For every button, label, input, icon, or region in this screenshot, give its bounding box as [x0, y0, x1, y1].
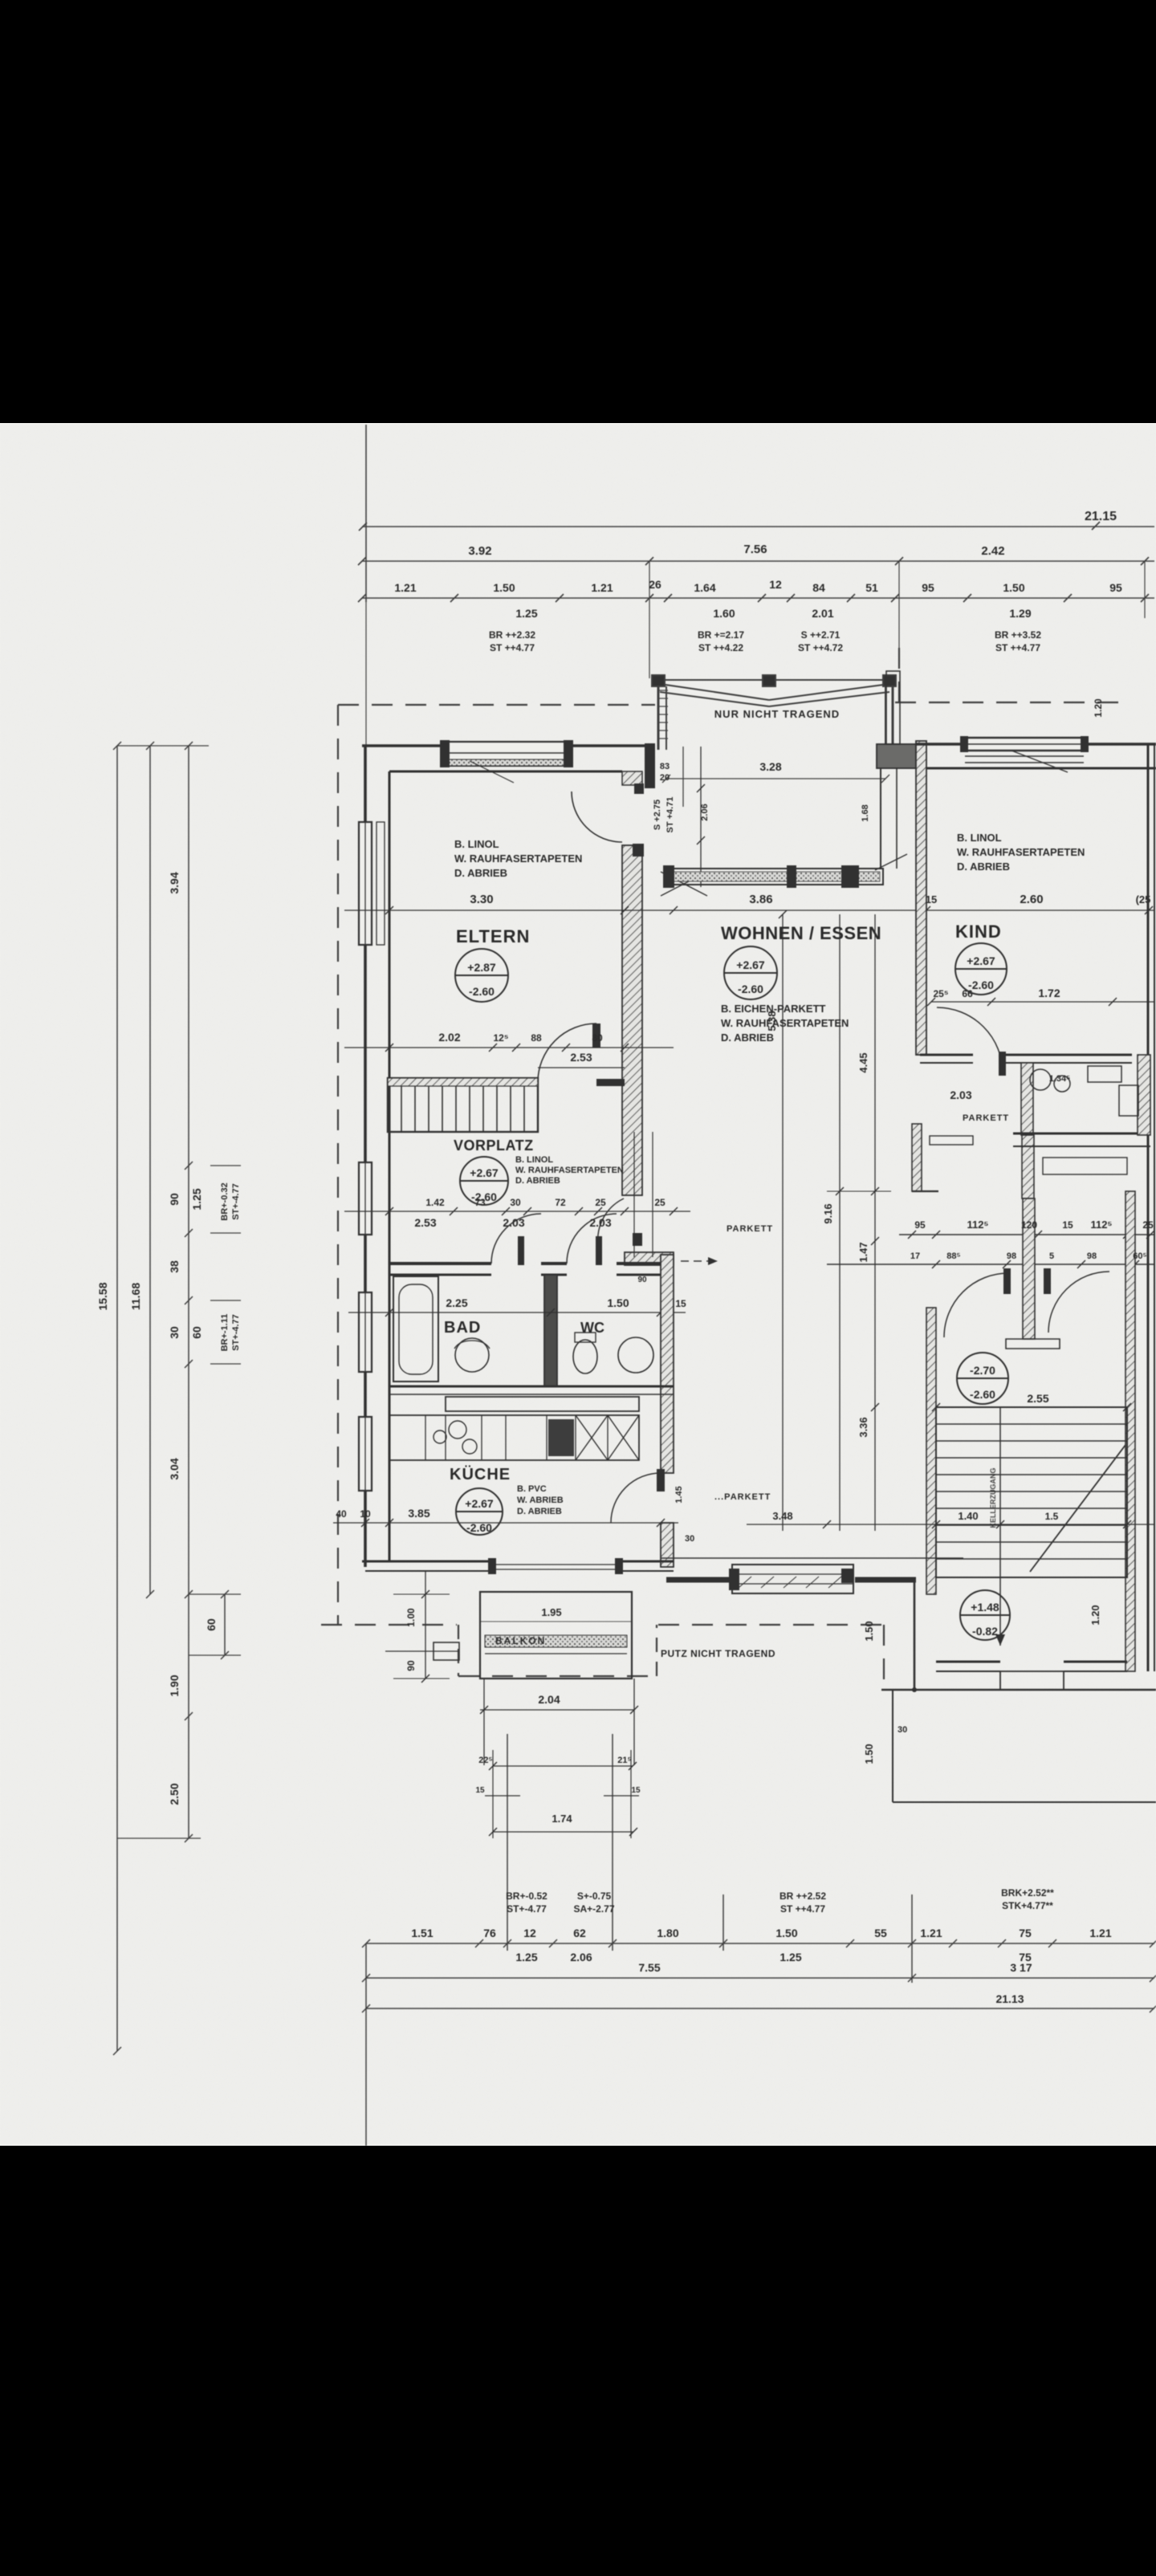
svg-text:2.53: 2.53 — [570, 1051, 592, 1064]
svg-text:BRK+2.52**: BRK+2.52** — [1001, 1887, 1054, 1898]
svg-text:+2.87: +2.87 — [467, 961, 496, 974]
svg-text:2.02: 2.02 — [438, 1031, 460, 1044]
svg-text:D. ABRIEB: D. ABRIEB — [515, 1176, 560, 1186]
svg-text:76: 76 — [483, 1927, 496, 1939]
svg-text:1.50: 1.50 — [1003, 581, 1024, 594]
svg-text:88: 88 — [531, 1032, 542, 1044]
svg-text:9.16: 9.16 — [822, 1203, 834, 1223]
svg-text:1.5: 1.5 — [1045, 1511, 1059, 1522]
svg-text:ST+-4.77: ST+-4.77 — [231, 1183, 241, 1220]
svg-text:11.68: 11.68 — [129, 1283, 142, 1310]
svg-text:88⁵: 88⁵ — [946, 1251, 960, 1261]
svg-text:D. ABRIEB: D. ABRIEB — [957, 861, 1010, 873]
svg-text:-2.60: -2.60 — [970, 1388, 995, 1401]
svg-text:-2.60: -2.60 — [469, 985, 495, 998]
svg-text:PARKETT: PARKETT — [727, 1224, 773, 1234]
svg-text:15: 15 — [926, 893, 937, 905]
svg-text:95: 95 — [914, 1219, 926, 1231]
svg-text:55: 55 — [874, 1927, 887, 1939]
svg-text:12: 12 — [769, 578, 782, 591]
svg-text:40: 40 — [336, 1508, 347, 1520]
svg-text:+2.67: +2.67 — [470, 1166, 499, 1179]
svg-text:95: 95 — [1109, 581, 1122, 594]
svg-text:WOHNEN / ESSEN: WOHNEN / ESSEN — [721, 923, 881, 943]
svg-text:1.68: 1.68 — [861, 804, 870, 821]
svg-text:B. LINOL: B. LINOL — [515, 1155, 553, 1165]
svg-text:1.40: 1.40 — [958, 1510, 978, 1522]
svg-text:ST+-4.77: ST+-4.77 — [507, 1903, 547, 1915]
svg-text:S +2.75: S +2.75 — [653, 800, 662, 830]
svg-text:STK+4.77**: STK+4.77** — [1002, 1900, 1053, 1911]
svg-text:22⁵: 22⁵ — [478, 1756, 492, 1765]
svg-text:NUR NICHT TRAGEND: NUR NICHT TRAGEND — [714, 708, 840, 720]
svg-text:17: 17 — [910, 1251, 920, 1261]
svg-text:84: 84 — [812, 581, 825, 594]
svg-text:5: 5 — [1049, 1251, 1054, 1261]
svg-text:75: 75 — [1019, 1927, 1032, 1939]
svg-text:1.20: 1.20 — [1093, 698, 1104, 718]
svg-text:WC: WC — [580, 1320, 604, 1336]
svg-text:S ++2.71: S ++2.71 — [801, 629, 841, 641]
svg-text:1.45: 1.45 — [674, 1486, 684, 1503]
svg-text:1.25: 1.25 — [779, 1951, 801, 1964]
svg-text:D. ABRIEB: D. ABRIEB — [517, 1507, 562, 1516]
svg-text:1.50: 1.50 — [775, 1927, 797, 1939]
svg-text:1.50: 1.50 — [607, 1296, 629, 1309]
svg-text:-2.60: -2.60 — [471, 1190, 497, 1203]
svg-text:1.21: 1.21 — [394, 581, 416, 594]
svg-text:3.30: 3.30 — [470, 893, 493, 906]
svg-text:21.13: 21.13 — [995, 1992, 1024, 2005]
svg-text:BR+-0.32: BR+-0.32 — [220, 1182, 230, 1220]
svg-text:12: 12 — [523, 1927, 536, 1939]
svg-text:S+-0.75: S+-0.75 — [577, 1890, 612, 1902]
svg-text:30: 30 — [510, 1197, 521, 1208]
svg-text:+2.67: +2.67 — [736, 958, 765, 971]
svg-text:15: 15 — [631, 1786, 641, 1795]
svg-text:1.50: 1.50 — [863, 1621, 875, 1641]
svg-text:BR +=2.17: BR +=2.17 — [698, 629, 744, 641]
svg-text:ST ++4.77: ST ++4.77 — [490, 642, 535, 653]
svg-text:98: 98 — [1087, 1251, 1097, 1261]
svg-text:1.25: 1.25 — [515, 1951, 537, 1964]
svg-text:1.80: 1.80 — [657, 1927, 678, 1939]
svg-text:90: 90 — [405, 1660, 417, 1671]
svg-text:1.64: 1.64 — [694, 581, 715, 594]
svg-text:-0.82: -0.82 — [972, 1625, 998, 1638]
svg-text:-2.70: -2.70 — [970, 1364, 995, 1377]
svg-text:7.56: 7.56 — [743, 543, 767, 556]
svg-text:1.72: 1.72 — [1038, 987, 1060, 999]
svg-text:21⁵: 21⁵ — [617, 1756, 631, 1765]
svg-text:1.90: 1.90 — [168, 1675, 181, 1696]
svg-text:38: 38 — [168, 1260, 181, 1273]
svg-text:BR ++2.52: BR ++2.52 — [779, 1890, 826, 1902]
svg-text:3.48: 3.48 — [772, 1510, 792, 1522]
svg-text:B. LINOL: B. LINOL — [454, 838, 499, 850]
svg-text:1.50: 1.50 — [863, 1744, 875, 1764]
svg-text:3.94: 3.94 — [168, 872, 181, 893]
svg-text:3.36: 3.36 — [857, 1417, 869, 1437]
svg-text:15: 15 — [1062, 1219, 1073, 1231]
svg-text:-2.60: -2.60 — [738, 983, 763, 995]
svg-text:98: 98 — [1007, 1251, 1016, 1261]
svg-text:KELLERZUGANG: KELLERZUGANG — [989, 1468, 997, 1528]
svg-text:1.20: 1.20 — [1089, 1605, 1101, 1625]
svg-text:2.03: 2.03 — [950, 1089, 971, 1101]
svg-text:2.01: 2.01 — [812, 607, 833, 620]
svg-text:ST+-4.77: ST+-4.77 — [231, 1314, 241, 1351]
svg-text:W. ABRIEB: W. ABRIEB — [517, 1496, 564, 1505]
svg-text:2.25: 2.25 — [446, 1296, 467, 1309]
svg-text:...PARKETT: ...PARKETT — [714, 1492, 771, 1502]
svg-text:60⁵: 60⁵ — [1133, 1251, 1146, 1261]
svg-text:5.38: 5.38 — [766, 1011, 778, 1031]
svg-text:1.60: 1.60 — [713, 607, 735, 620]
svg-text:ST +4.71: ST +4.71 — [666, 797, 675, 833]
svg-text:4.45: 4.45 — [857, 1052, 869, 1072]
svg-text:W. RAUHFASERTAPETEN: W. RAUHFASERTAPETEN — [515, 1166, 624, 1175]
svg-text:B. PVC: B. PVC — [517, 1484, 547, 1494]
svg-text:120: 120 — [1021, 1219, 1037, 1231]
svg-text:1.74: 1.74 — [552, 1813, 572, 1825]
svg-text:PUTZ NICHT TRAGEND: PUTZ NICHT TRAGEND — [661, 1648, 775, 1659]
svg-text:+1.48: +1.48 — [971, 1601, 999, 1614]
svg-text:2.03: 2.03 — [589, 1216, 611, 1229]
svg-text:BR ++2.32: BR ++2.32 — [489, 629, 535, 641]
svg-text:BR ++3.52: BR ++3.52 — [995, 629, 1041, 641]
svg-text:30: 30 — [898, 1725, 907, 1735]
svg-text:51: 51 — [865, 581, 878, 594]
svg-text:+2.67: +2.67 — [967, 954, 995, 967]
svg-text:30: 30 — [168, 1326, 181, 1339]
svg-text:2.60: 2.60 — [1020, 893, 1043, 906]
svg-text:1.47: 1.47 — [857, 1242, 869, 1262]
svg-text:BALKON: BALKON — [495, 1635, 546, 1646]
svg-text:90: 90 — [637, 1276, 647, 1284]
svg-text:SA+-2.77: SA+-2.77 — [573, 1903, 614, 1915]
svg-text:ST ++4.72: ST ++4.72 — [798, 642, 843, 653]
svg-text:KÜCHE: KÜCHE — [450, 1465, 511, 1483]
svg-text:1.95: 1.95 — [541, 1606, 561, 1618]
svg-text:D. ABRIEB: D. ABRIEB — [721, 1032, 774, 1044]
svg-text:60: 60 — [190, 1326, 203, 1339]
svg-text:W. RAUHFASERTAPETEN: W. RAUHFASERTAPETEN — [957, 846, 1085, 858]
svg-text:1.21: 1.21 — [920, 1927, 942, 1939]
svg-text:20: 20 — [660, 773, 670, 783]
svg-text:BR+-1.11: BR+-1.11 — [220, 1314, 230, 1352]
svg-text:2.06: 2.06 — [570, 1951, 592, 1964]
svg-text:ST ++4.77: ST ++4.77 — [780, 1903, 825, 1915]
svg-text:25: 25 — [595, 1197, 606, 1208]
svg-text:2.53: 2.53 — [414, 1216, 436, 1229]
svg-text:12⁵: 12⁵ — [494, 1032, 509, 1044]
svg-text:2.55: 2.55 — [1027, 1392, 1048, 1405]
svg-text:10: 10 — [360, 1508, 371, 1520]
svg-text:1.21: 1.21 — [591, 581, 613, 594]
svg-text:1.25: 1.25 — [190, 1188, 203, 1210]
svg-text:1.00: 1.00 — [405, 1608, 417, 1627]
svg-text:1.25: 1.25 — [515, 607, 537, 620]
svg-text:BR+-0.52: BR+-0.52 — [506, 1890, 547, 1902]
svg-text:3 17: 3 17 — [1010, 1961, 1032, 1974]
svg-text:1.34⁵: 1.34⁵ — [1049, 1074, 1071, 1084]
svg-text:-2.60: -2.60 — [466, 1521, 492, 1534]
svg-text:2.06: 2.06 — [700, 804, 710, 820]
svg-text:1.21: 1.21 — [1089, 1927, 1111, 1939]
svg-text:62: 62 — [573, 1927, 586, 1939]
svg-text:B. LINOL: B. LINOL — [957, 832, 1002, 844]
svg-text:25: 25 — [654, 1197, 666, 1208]
svg-text:3.85: 3.85 — [408, 1507, 429, 1520]
svg-text:3.86: 3.86 — [749, 893, 772, 906]
svg-text:30: 30 — [685, 1534, 694, 1544]
svg-text:2.03: 2.03 — [503, 1216, 524, 1229]
svg-text:1.51: 1.51 — [411, 1927, 433, 1939]
svg-text:90: 90 — [168, 1193, 181, 1206]
svg-text:VORPLATZ: VORPLATZ — [454, 1137, 534, 1154]
svg-text:KIND: KIND — [955, 922, 1002, 942]
svg-text:112⁵: 112⁵ — [1090, 1219, 1112, 1231]
svg-text:3.28: 3.28 — [759, 760, 781, 773]
svg-text:2.50: 2.50 — [168, 1783, 181, 1805]
svg-text:1.50: 1.50 — [493, 581, 515, 594]
svg-text:7.55: 7.55 — [638, 1961, 660, 1974]
svg-text:60: 60 — [205, 1618, 218, 1631]
svg-text:25: 25 — [1142, 1219, 1154, 1231]
svg-text:25⁵: 25⁵ — [934, 988, 949, 999]
svg-text:3.04: 3.04 — [168, 1458, 181, 1479]
svg-text:21.15: 21.15 — [1085, 510, 1117, 523]
svg-text:15.58: 15.58 — [96, 1282, 109, 1310]
svg-text:ELTERN: ELTERN — [456, 926, 530, 946]
svg-text:112⁵: 112⁵ — [967, 1219, 988, 1231]
svg-text:ST ++4.22: ST ++4.22 — [698, 642, 743, 653]
svg-text:80: 80 — [592, 1032, 603, 1044]
svg-text:BAD: BAD — [444, 1319, 481, 1337]
svg-text:95: 95 — [922, 581, 934, 594]
svg-text:3.92: 3.92 — [468, 544, 491, 558]
svg-text:W. RAUHFASERTAPETEN: W. RAUHFASERTAPETEN — [721, 1017, 849, 1029]
svg-text:72: 72 — [555, 1197, 566, 1208]
svg-text:83: 83 — [660, 762, 670, 771]
svg-text:W. RAUHFASERTAPETEN: W. RAUHFASERTAPETEN — [454, 853, 582, 865]
svg-text:ST ++4.77: ST ++4.77 — [995, 642, 1040, 653]
svg-text:15: 15 — [675, 1298, 686, 1309]
svg-text:+2.67: +2.67 — [465, 1497, 494, 1510]
svg-text:1.29: 1.29 — [1009, 607, 1031, 620]
svg-text:2.04: 2.04 — [538, 1693, 560, 1706]
svg-text:15: 15 — [475, 1786, 485, 1795]
svg-text:PARKETT: PARKETT — [963, 1113, 1009, 1123]
svg-text:2.42: 2.42 — [981, 544, 1004, 558]
svg-text:-2.60: -2.60 — [968, 979, 994, 991]
svg-text:1.42: 1.42 — [425, 1197, 445, 1208]
svg-text:D. ABRIEB: D. ABRIEB — [454, 867, 507, 879]
svg-text:26: 26 — [649, 578, 661, 591]
